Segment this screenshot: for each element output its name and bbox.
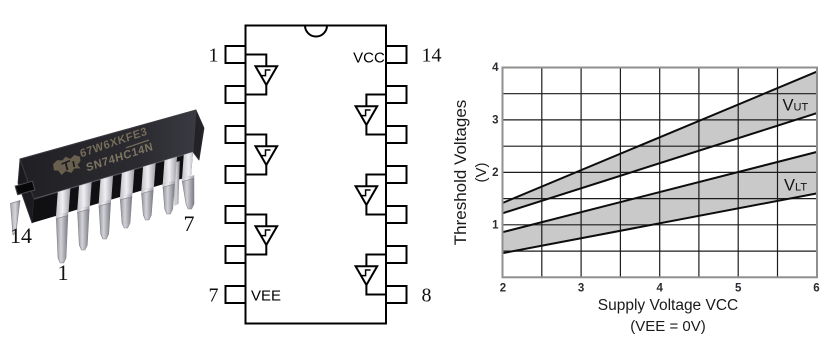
svg-text:Threshold Voltages: Threshold Voltages bbox=[451, 100, 470, 246]
svg-text:8: 8 bbox=[422, 285, 432, 307]
svg-text:3: 3 bbox=[492, 115, 498, 127]
svg-text:2: 2 bbox=[492, 167, 498, 179]
svg-text:VEE: VEE bbox=[251, 288, 281, 305]
pin 3 bbox=[226, 126, 246, 143]
wire pin13 to inverter U1D input bbox=[366, 95, 386, 107]
IC photo pin 4 bbox=[120, 193, 133, 228]
wire pin9 to inverter U1F input bbox=[366, 255, 386, 267]
wire pin11 to inverter U1E input bbox=[366, 175, 386, 187]
chart gridlines bbox=[503, 68, 818, 278]
pin 13 bbox=[386, 86, 407, 103]
wire U1E output to pin10 bbox=[366, 205, 386, 215]
IC photo package body: top face bbox=[20, 110, 196, 199]
inverter U1B (schmitt trigger) bbox=[256, 146, 278, 165]
svg-text:VCC: VCC bbox=[353, 50, 385, 67]
svg-text:14: 14 bbox=[422, 45, 442, 67]
svg-text:1: 1 bbox=[58, 260, 69, 285]
IC photo pin 6 bbox=[162, 181, 175, 214]
curve label V_LT bbox=[784, 177, 807, 195]
pin 11 bbox=[386, 166, 407, 183]
pin 14 bbox=[386, 46, 407, 63]
chart plot border bbox=[503, 68, 818, 278]
x-axis title: Supply Voltage VCC bbox=[598, 297, 738, 335]
pin number 7 label bbox=[209, 285, 219, 307]
pin 10 bbox=[386, 206, 407, 223]
V_UT band upper limit line bbox=[503, 72, 818, 203]
wire pin1 to inverter U1A input bbox=[246, 55, 266, 67]
node VEE label bbox=[251, 288, 281, 305]
inverter U1D (schmitt trigger) bbox=[356, 106, 378, 125]
wire U1C output to pin6 bbox=[246, 245, 266, 255]
wire U1F output to pin8 bbox=[366, 285, 386, 295]
wire pin3 to inverter U1B input bbox=[246, 135, 266, 147]
svg-text:2: 2 bbox=[500, 283, 506, 295]
wire U1D output to pin12 bbox=[366, 125, 386, 135]
IC photo label: pin 7 bbox=[184, 211, 195, 236]
node VCC label bbox=[353, 50, 385, 67]
pin 8 bbox=[386, 286, 407, 303]
svg-text:(V): (V) bbox=[473, 163, 490, 183]
svg-text:Supply Voltage VCC: Supply Voltage VCC bbox=[598, 297, 738, 314]
inverter U1C (schmitt trigger) bbox=[256, 226, 278, 245]
pin 6 bbox=[226, 246, 246, 263]
V_LT band fill bbox=[503, 152, 818, 253]
curve label V_UT bbox=[783, 97, 809, 115]
svg-text:3: 3 bbox=[578, 283, 584, 295]
wire pin5 to inverter U1C input bbox=[246, 215, 266, 227]
IC photo pin 2 bbox=[77, 206, 90, 250]
IC photo back pin (pin 14, rear row) bbox=[11, 201, 21, 236]
index notch at top of IC body bbox=[305, 26, 327, 37]
IC photo Texas Instruments logo on package bbox=[51, 153, 84, 178]
IC photo package body: left end face bbox=[18, 159, 34, 223]
y-axis title: Threshold Voltages (V) bbox=[451, 100, 490, 246]
V_UT band lower limit line bbox=[503, 113, 818, 213]
IC photo label: pin 14 bbox=[10, 223, 32, 248]
y-axis tick labels bbox=[492, 62, 499, 231]
IC photo pin 5 bbox=[141, 187, 154, 220]
pin 12 bbox=[386, 126, 407, 143]
pin 7 bbox=[226, 286, 246, 303]
pin 1 bbox=[226, 46, 246, 63]
svg-text:14: 14 bbox=[10, 223, 32, 248]
IC photo pin 3 bbox=[98, 200, 111, 239]
wire U1B output to pin4 bbox=[246, 165, 266, 175]
IC photo rear pin peeking between pins 6 and 7 bbox=[173, 161, 180, 206]
IC photo pin 1 bbox=[56, 212, 69, 263]
IC body outline bbox=[246, 26, 387, 324]
V_UT band fill bbox=[503, 72, 818, 214]
pin 4 bbox=[226, 166, 246, 183]
pin number 1 label bbox=[209, 45, 219, 67]
inverter U1F (schmitt trigger) bbox=[356, 266, 378, 285]
IC photo marking text line 2: SN74HC14N bbox=[85, 141, 154, 174]
svg-text:4: 4 bbox=[492, 62, 499, 74]
svg-text:5: 5 bbox=[735, 283, 742, 295]
IC photo label: pin 1 bbox=[58, 260, 69, 285]
pin 9 bbox=[386, 246, 407, 263]
svg-text:4: 4 bbox=[656, 283, 663, 295]
V_LT band upper limit line bbox=[503, 152, 818, 232]
wire U1A output to pin2 bbox=[246, 85, 266, 95]
IC photo marking text line 1: 67W6XKFE3 bbox=[79, 126, 149, 161]
pin number 14 label bbox=[422, 45, 442, 67]
IC photo package body: front face bbox=[32, 152, 193, 223]
IC photo front pins 1-7 with silver shoulders bbox=[56, 145, 197, 263]
V_LT band lower limit line bbox=[503, 193, 818, 253]
svg-text:7: 7 bbox=[209, 285, 219, 307]
IC photo pin-1 index dimple on top face bbox=[15, 181, 35, 195]
svg-text:6: 6 bbox=[813, 283, 819, 295]
pin 5 bbox=[226, 206, 246, 223]
x-axis tick labels bbox=[500, 283, 820, 295]
svg-text:(VEE = 0V): (VEE = 0V) bbox=[630, 318, 705, 335]
svg-text:7: 7 bbox=[184, 211, 195, 236]
svg-text:1: 1 bbox=[209, 45, 219, 67]
pin number 8 label bbox=[422, 285, 432, 307]
inverter U1A (schmitt trigger) bbox=[256, 66, 278, 85]
pin 2 bbox=[226, 86, 246, 103]
inverter U1E (schmitt trigger) bbox=[356, 186, 378, 205]
IC photo package body: right end face bbox=[193, 110, 204, 160]
svg-text:1: 1 bbox=[492, 220, 499, 232]
IC photo pin 7 bbox=[182, 175, 195, 209]
